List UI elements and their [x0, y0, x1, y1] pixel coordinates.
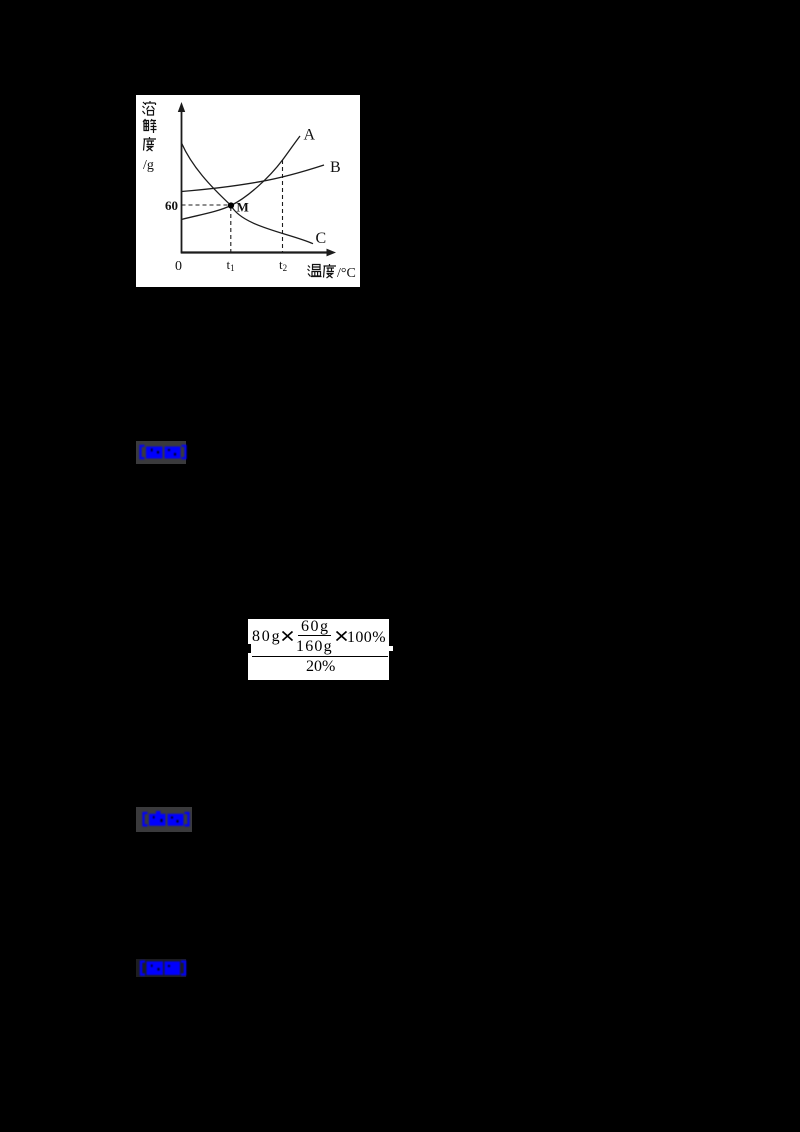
CJK: 度 (x axis)	[324, 264, 337, 278]
svg-text:A: A	[304, 127, 316, 144]
y axis arrow head	[178, 102, 185, 112]
CJK: 解	[143, 119, 157, 133]
blue label 3	[136, 959, 186, 977]
dashed 60 line	[182, 204, 230, 206]
svg-text:C: C	[316, 230, 327, 247]
x axis	[181, 251, 329, 253]
svg-text:/g: /g	[143, 158, 154, 173]
point M	[228, 202, 234, 208]
svg-text:/°C: /°C	[337, 266, 356, 281]
white nub right of formula box	[389, 646, 393, 651]
curve A	[182, 136, 301, 220]
CJK: 溶	[143, 101, 156, 115]
CJK: 度	[144, 137, 157, 151]
svg-text:M: M	[237, 200, 249, 215]
dashed t1 line	[230, 207, 232, 252]
x axis arrow head	[327, 249, 337, 257]
curve B	[182, 165, 325, 192]
solubility chart image (white box)	[136, 95, 360, 287]
blue label 2	[136, 807, 192, 832]
CJK: 温	[308, 265, 322, 277]
y axis	[181, 107, 183, 253]
svg-text:60: 60	[165, 198, 178, 213]
formula image (white box)	[248, 619, 389, 680]
svg-text:B: B	[330, 159, 341, 176]
curve C	[182, 143, 314, 244]
dashed t2 line	[282, 160, 284, 252]
blue label 1	[136, 441, 186, 464]
svg-text:0: 0	[175, 259, 182, 274]
